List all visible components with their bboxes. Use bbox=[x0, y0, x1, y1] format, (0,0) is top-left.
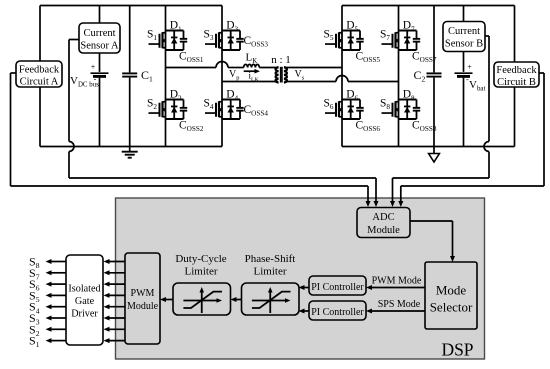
arrow iLK current direction bbox=[244, 69, 260, 74]
transistor S5 (MOSFET) bbox=[325, 32, 342, 48]
capacitor C1 bbox=[122, 6, 137, 147]
ground (earth) under C1 bbox=[122, 147, 138, 158]
svg-text:Sensor B: Sensor B bbox=[445, 39, 483, 50]
svg-text:PWM: PWM bbox=[131, 288, 155, 299]
transistor S4 (MOSFET) bbox=[205, 101, 222, 117]
PWM module box bbox=[125, 253, 160, 344]
svg-text:+: + bbox=[91, 63, 96, 72]
wire left outer branch (top bus to Feedback Circuit A to bottom bus) bbox=[39, 6, 41, 147]
capacitor COSS3 bbox=[236, 31, 243, 51]
wire parallel loop of S8 bbox=[399, 100, 417, 120]
phase-shift limiter block (saturation) bbox=[242, 283, 300, 315]
right bridge bottom bus wire bbox=[342, 146, 515, 148]
svg-text:Circuit B: Circuit B bbox=[497, 77, 536, 88]
wire parallel loop of S5 bbox=[342, 31, 360, 51]
wire Mode Selector to PI controller 2 (SPS mode path) bbox=[366, 309, 425, 314]
svg-text:PI Controller: PI Controller bbox=[311, 307, 364, 318]
svg-text:Driver: Driver bbox=[71, 309, 98, 320]
svg-text:Current: Current bbox=[83, 28, 115, 39]
capacitor COSS4 bbox=[236, 100, 243, 120]
feedback circuit A box bbox=[16, 61, 62, 87]
svg-text:Feedback: Feedback bbox=[19, 65, 60, 76]
diode D8 (body diode) bbox=[404, 100, 410, 120]
wire primary bottom: leg2 midpoint to transformer bbox=[222, 81, 278, 83]
current sensor A box bbox=[79, 23, 120, 53]
wire secondary top: transformer to leg S5/S6 midpoint bbox=[285, 67, 343, 69]
svg-text:DSP: DSP bbox=[441, 340, 473, 360]
wire current sensor B output to ADC with hop over bottom bus (node IsenB) bbox=[390, 36, 489, 207]
label Duty-Cycle Limiter bbox=[175, 253, 226, 278]
right bridge top DC bus wire bbox=[342, 5, 515, 7]
transistor S8 (MOSFET) bbox=[382, 101, 399, 117]
capacitor COSS1 bbox=[180, 31, 187, 51]
wire ADC Module to Mode Selector bbox=[410, 221, 455, 262]
wire Duty-Cycle Limiter to PWM Module bbox=[160, 297, 173, 302]
wire parallel loop of S2 bbox=[166, 100, 184, 120]
wires Isolated Gate Driver outputs S8..S1 bbox=[46, 259, 67, 343]
label Isolated Gate Driver bbox=[68, 284, 100, 320]
ADC module box bbox=[357, 208, 410, 238]
svg-text:Current: Current bbox=[448, 26, 480, 37]
wire secondary bottom: transformer to leg S7/S8 midpoint with hop over leg S5/S6 bbox=[285, 76, 399, 82]
wire parallel loop of S6 bbox=[342, 100, 360, 120]
inductor LK (series leakage inductance) bbox=[244, 64, 260, 67]
svg-text:Limiter: Limiter bbox=[185, 266, 218, 278]
svg-text:Sensor A: Sensor A bbox=[80, 41, 119, 52]
wire parallel loop of S4 bbox=[222, 100, 240, 120]
wire current sensor A output to ADC with hop over bottom bus (node IsenA) bbox=[69, 40, 379, 208]
wire parallel loop of S3 bbox=[222, 31, 240, 51]
capacitor COSS2 bbox=[180, 100, 187, 120]
svg-text:Gate: Gate bbox=[75, 296, 95, 307]
wire inductor to transformer primary top bbox=[259, 67, 278, 69]
label PWM Module bbox=[127, 288, 159, 312]
label Current Sensor B bbox=[445, 26, 483, 50]
label Mode Selector bbox=[430, 283, 473, 315]
wire bridge leg S5/S6 (left leg of secondary bridge) bbox=[341, 6, 343, 147]
ground (chassis triangle) under C2 bbox=[429, 147, 440, 163]
diode D6 (body diode) bbox=[348, 100, 354, 120]
wire bridge leg S3/S4 (right leg of primary bridge) bbox=[221, 6, 223, 147]
svg-text:Feedback: Feedback bbox=[496, 65, 537, 76]
svg-text:Module: Module bbox=[127, 301, 159, 312]
wire PI controller 1 to Phase-Shift Limiter bbox=[299, 285, 310, 290]
svg-text:+: + bbox=[467, 63, 472, 72]
transistor S2 (MOSFET) bbox=[149, 101, 166, 117]
label Current Sensor A bbox=[80, 28, 119, 52]
duty-cycle limiter block (saturation) bbox=[173, 283, 231, 315]
DSP block background bbox=[116, 198, 485, 359]
diode D2 (body diode) bbox=[171, 100, 177, 120]
wire current sensor A top lead to top bus bbox=[99, 6, 101, 24]
capacitor COSS8 bbox=[413, 100, 420, 120]
svg-text:Mode: Mode bbox=[436, 283, 467, 298]
wire parallel loop of S7 bbox=[399, 31, 417, 51]
svg-text:Limiter: Limiter bbox=[254, 266, 287, 278]
transformer T1 n:1 bbox=[276, 67, 287, 83]
PI controller 2 box bbox=[309, 301, 366, 320]
wire bridge leg S1/S2 (left leg of primary bridge) bbox=[165, 6, 167, 147]
diode D1 (body diode) bbox=[171, 31, 177, 51]
transistor S7 (MOSFET) bbox=[382, 32, 399, 48]
battery VDCbus source bbox=[91, 53, 109, 147]
svg-text:PI Controller: PI Controller bbox=[311, 282, 364, 293]
capacitor C2 bbox=[427, 6, 442, 147]
wire PI controller 2 to Phase-Shift Limiter bbox=[299, 309, 310, 314]
wire Feedback Circuit A output to ADC (node VfbA) bbox=[11, 73, 371, 207]
capacitor COSS6 bbox=[356, 100, 363, 120]
diode D5 (body diode) bbox=[348, 31, 354, 51]
svg-text:Circuit A: Circuit A bbox=[20, 77, 59, 88]
svg-text:PWM Mode: PWM Mode bbox=[372, 276, 422, 287]
label Feedback Circuit B bbox=[496, 65, 537, 88]
svg-text:SPS Mode: SPS Mode bbox=[378, 299, 421, 310]
transistor S6 (MOSFET) bbox=[325, 101, 342, 117]
wire primary top: leg1 midpoint to transformer with hop over leg2 bbox=[166, 62, 244, 68]
svg-text:n : 1: n : 1 bbox=[271, 54, 291, 66]
svg-text:Selector: Selector bbox=[430, 300, 473, 315]
wire bridge leg S7/S8 (right leg of secondary bridge) bbox=[398, 6, 400, 147]
label Phase-Shift Limiter bbox=[245, 253, 296, 278]
left bridge bottom bus wire bbox=[40, 146, 222, 148]
left bridge top DC bus wire bbox=[40, 5, 222, 7]
svg-text:ADC: ADC bbox=[372, 212, 394, 223]
PI controller 1 box bbox=[309, 276, 366, 295]
wire Phase-Shift Limiter to Duty-Cycle Limiter bbox=[231, 297, 242, 302]
svg-text:Phase-Shift: Phase-Shift bbox=[245, 253, 296, 265]
capacitor COSS7 bbox=[413, 31, 420, 51]
diode D4 (body diode) bbox=[228, 100, 234, 120]
capacitor COSS5 bbox=[356, 31, 363, 51]
transistor S3 (MOSFET) bbox=[205, 32, 222, 48]
isolated gate driver box bbox=[66, 255, 103, 345]
wire Mode Selector to PI controller 1 (PWM mode path) bbox=[366, 285, 425, 290]
feedback circuit B box bbox=[494, 62, 539, 87]
transistor S1 (MOSFET) bbox=[149, 32, 166, 48]
wire Feedback Circuit B output to ADC (node VfbB) bbox=[398, 73, 544, 207]
diode D7 (body diode) bbox=[404, 31, 410, 51]
wire right outer branch (top bus to Feedback Circuit B to bottom bus) bbox=[514, 6, 516, 147]
current sensor B box bbox=[443, 22, 485, 52]
svg-text:Module: Module bbox=[367, 225, 400, 236]
wire current sensor B top lead to top bus bbox=[463, 6, 465, 22]
svg-text:Duty-Cycle: Duty-Cycle bbox=[175, 253, 226, 265]
battery Vbat source bbox=[455, 52, 473, 147]
svg-text:Isolated: Isolated bbox=[68, 284, 100, 295]
mode selector box bbox=[425, 262, 477, 329]
label ADC Module bbox=[367, 212, 400, 236]
label Feedback Circuit A bbox=[19, 65, 60, 88]
wire parallel loop of S1 bbox=[166, 31, 184, 51]
wires PWM Module to Isolated Gate Driver (8 gate signals) bbox=[104, 259, 126, 343]
diode D3 (body diode) bbox=[228, 31, 234, 51]
